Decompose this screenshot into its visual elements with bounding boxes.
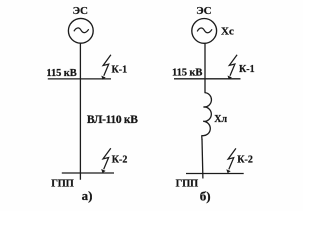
wire: generator to 115kV bus, right upper: [204, 43, 206, 93]
svg-text:К-1: К-1: [239, 64, 255, 75]
fault K-1 right arrow: [228, 55, 238, 80]
svg-text:115 кВ: 115 кВ: [46, 68, 76, 79]
svg-text:ЭС: ЭС: [196, 5, 211, 17]
bus 115 кВ left: [48, 78, 111, 80]
svg-text:115 кВ: 115 кВ: [172, 68, 202, 79]
fault K-2 left arrow: [101, 148, 111, 173]
generator G1 sine mark: [74, 28, 89, 33]
svg-text:Хл: Хл: [214, 114, 227, 125]
wire: generator down through 115kV bus to GPP, left feeder: [79, 43, 81, 180]
fault K-1 left arrow: [101, 55, 111, 80]
bus ГПП right: [186, 173, 244, 175]
reactor Хл (line reactance) coil: [202, 93, 212, 140]
svg-text:К-1: К-1: [112, 65, 128, 76]
svg-text:ГПП: ГПП: [176, 179, 198, 190]
wire: reactor to GPP bus, right lower: [201, 139, 204, 179]
svg-text:ВЛ-110 кВ: ВЛ-110 кВ: [87, 114, 138, 126]
generator G1 (ЭС system source) left circle: [68, 18, 93, 43]
svg-text:б): б): [200, 188, 211, 203]
generator G2 (ЭС system source) right circle: [192, 19, 217, 44]
svg-text:ГПП: ГПП: [51, 178, 73, 189]
fault K-2 right arrow: [226, 148, 236, 173]
svg-text:К-2: К-2: [237, 155, 253, 166]
generator G2 sine mark: [197, 28, 212, 33]
bus ГПП left: [62, 172, 114, 174]
svg-text:Хс: Хс: [221, 25, 234, 37]
svg-text:ЭС: ЭС: [73, 5, 88, 17]
svg-text:а): а): [82, 188, 93, 203]
svg-text:К-2: К-2: [112, 155, 128, 166]
bus 115 кВ right: [174, 78, 241, 80]
